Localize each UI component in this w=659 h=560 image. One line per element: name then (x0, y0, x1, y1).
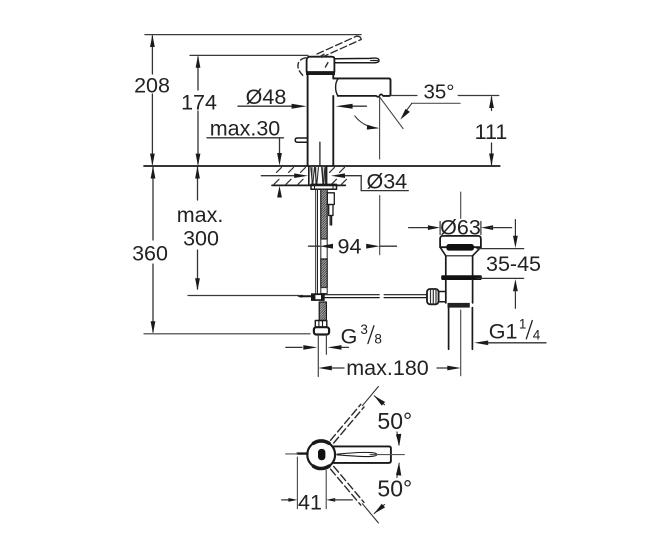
extension line 41 left (296, 457, 298, 509)
ref line rod end (188, 295, 299, 297)
svg-text:35-45: 35-45 (486, 252, 541, 276)
leader max.30 (207, 138, 284, 198)
faucet cap bottom band (306, 72, 335, 75)
spout top (333, 78, 390, 96)
dimension max.300 (195, 166, 200, 290)
stream vertical reference (379, 97, 381, 159)
D63 arrows (409, 225, 512, 230)
countertop top line (144, 165, 500, 167)
svg-text:1: 1 (519, 316, 527, 331)
leader D48 (238, 104, 366, 109)
svg-text:8: 8 (374, 332, 382, 347)
top view centerline left (286, 453, 298, 455)
hose end tube right wall (325, 335, 327, 355)
svg-text:360: 360 (132, 242, 168, 266)
ref line top of handle (145, 34, 361, 36)
dimension 111 (489, 96, 494, 166)
dashed raised handle tip (357, 36, 362, 39)
svg-text:max.30: max.30 (210, 117, 281, 141)
counter hatching (274, 167, 347, 184)
extension line 41 right (325, 470, 327, 508)
D34 arrows (261, 173, 408, 190)
faucet body left edge (307, 75, 309, 166)
spout body fillet (336, 79, 339, 96)
svg-text:50°: 50° (377, 408, 412, 434)
faucet body right edge upper (332, 75, 334, 78)
drain rod knob (427, 289, 439, 304)
svg-text:94: 94 (338, 235, 362, 259)
drain plug disc (446, 244, 474, 251)
mounting locknut (311, 184, 337, 189)
dimension max.180 (318, 366, 461, 371)
pull rod inside body (319, 142, 321, 165)
ref line hose end (144, 333, 310, 335)
svg-text:300: 300 (183, 227, 219, 251)
top view center pill (318, 449, 325, 460)
extension line up 50deg (362, 387, 378, 406)
drain cap taper (440, 247, 481, 256)
label G3/8 (341, 322, 382, 349)
svg-text:max.180: max.180 (346, 356, 429, 380)
dimension 174 (196, 56, 201, 166)
lever handle (334, 58, 379, 63)
lever tip slit (371, 59, 378, 61)
svg-text:41: 41 (298, 491, 322, 515)
35deg leader arrow (400, 103, 411, 119)
horizontal rod left tip (297, 295, 311, 298)
drain centerline upper (460, 192, 462, 219)
pop-up rod under counter (316, 189, 318, 293)
dashed handle down 50deg (331, 466, 365, 505)
countertop bottom line (272, 184, 345, 186)
dimension 94 (309, 244, 397, 249)
top view left pin (298, 452, 308, 454)
stream 35deg line (380, 97, 403, 129)
top view lever slot (337, 452, 377, 456)
drain plug cap (440, 236, 481, 247)
dashed handle small marks (320, 54, 328, 67)
svg-text:35°: 35° (423, 80, 454, 103)
svg-text:max.: max. (177, 203, 224, 227)
svg-text:G: G (341, 324, 358, 348)
drain seal flange (441, 275, 482, 280)
dimension 35-45 (477, 220, 524, 309)
pop-up rod clamp block (311, 293, 325, 301)
horizontal rod to drain (325, 295, 427, 298)
top view centerline right (370, 454, 404, 456)
35deg underline (412, 102, 460, 104)
drain body lower (446, 280, 473, 303)
label G1 1/4 (489, 316, 541, 343)
svg-text:50°: 50° (377, 475, 412, 501)
ref line top of cap (190, 54, 308, 56)
extension line down 50deg (362, 504, 378, 523)
drain bottom rim (448, 303, 470, 308)
drain knob neck (439, 292, 446, 302)
drain centerline lower (460, 310, 462, 376)
svg-text:3: 3 (360, 322, 368, 337)
svg-text:G1: G1 (489, 320, 518, 344)
dashed handle up 50deg (331, 404, 365, 443)
dashed raised handle edge 2 (322, 40, 362, 58)
top view circle body (307, 441, 335, 469)
faucet cap (handle base) (307, 57, 335, 72)
dashed raised handle edge 1 (317, 36, 357, 54)
faucet centerline extension (317, 335, 319, 377)
svg-text:111: 111 (475, 120, 508, 144)
svg-text:4: 4 (533, 327, 541, 342)
hose lower braided (319, 302, 326, 321)
pull rod knob (295, 138, 307, 142)
drain tailpipe (449, 308, 473, 350)
ref line spout bottom right (458, 95, 499, 97)
extension line aerator (379, 196, 381, 255)
svg-text:Ø34: Ø34 (367, 169, 408, 193)
top view lever (333, 446, 391, 463)
arc down 50deg (374, 463, 401, 513)
svg-text:208: 208 (134, 74, 170, 98)
dimension 208 (150, 35, 155, 166)
svg-text:174: 174 (181, 90, 217, 114)
G3/8 arrows (286, 345, 349, 350)
dashed rotated cap outline (298, 58, 306, 77)
ref line spout bottom left (391, 95, 417, 97)
G1 1/4 arrow (474, 341, 546, 346)
drain body upper (446, 256, 473, 275)
hose collar (315, 321, 327, 328)
rod guide blocks (327, 193, 334, 225)
faucet body right edge lower (332, 96, 334, 166)
spout underside with aerator notch (338, 94, 384, 97)
arc up 50deg (374, 396, 401, 446)
supply hose upper braided (321, 189, 327, 293)
35deg arc with arrow (355, 116, 379, 130)
dimension 41 arrows (282, 498, 353, 502)
dimension 360 (151, 166, 156, 333)
hose end nut (314, 327, 329, 334)
shank thread texture (311, 168, 326, 184)
D63 extension lines (440, 222, 481, 235)
shank through counter (309, 167, 327, 186)
